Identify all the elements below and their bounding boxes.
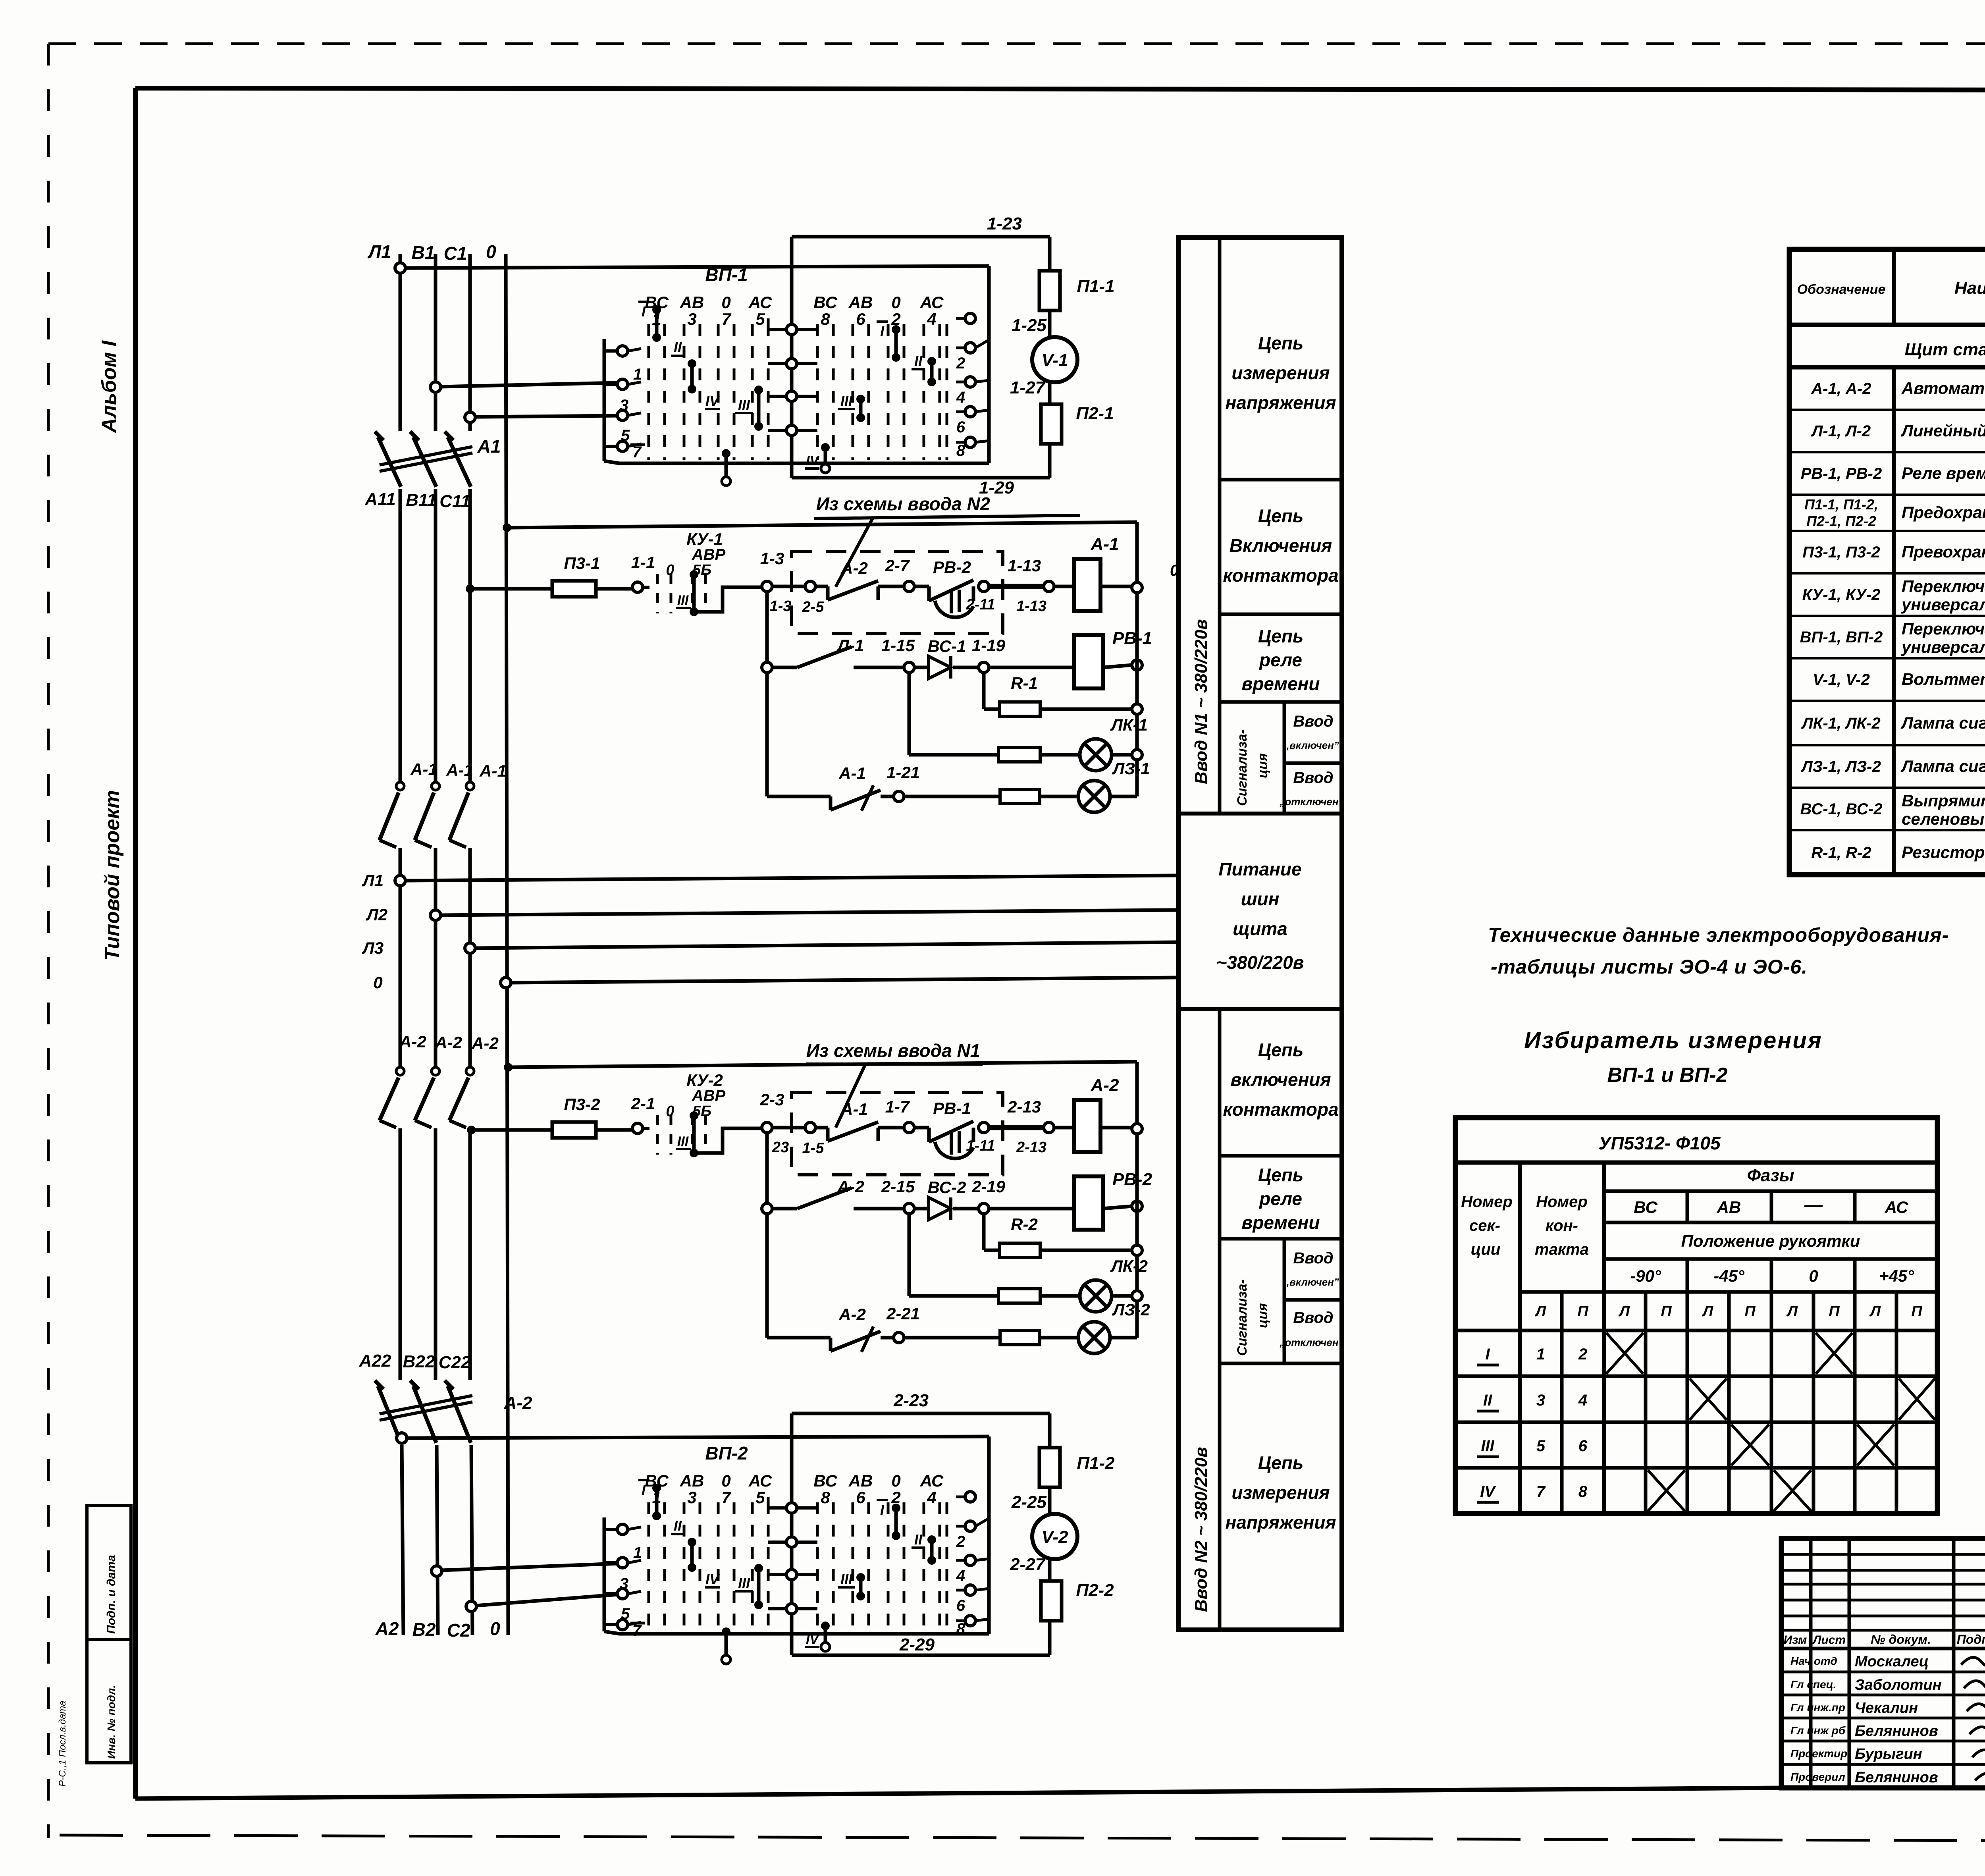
- svg-text:Технические данные электро: Технические данные электрооборудования-: [1488, 924, 1949, 946]
- svg-text:ция: ция: [1255, 1303, 1270, 1328]
- parts row R-1: [1811, 843, 1985, 862]
- svg-text:П2-1: П2-1: [1076, 404, 1114, 423]
- legend cell Ввод отключен (ввод 2): [1279, 1309, 1343, 1348]
- svg-text:АС: АС: [1885, 1198, 1908, 1217]
- svg-text:Цепь: Цепь: [1258, 333, 1304, 353]
- label 1-5 / 2-3 pair: [772, 1139, 824, 1157]
- svg-text:III: III: [840, 1571, 853, 1587]
- svg-text:4: 4: [927, 310, 936, 328]
- svg-text:1-23: 1-23: [987, 214, 1022, 233]
- ballast resistor for ЛЗ-2: [904, 1330, 1078, 1345]
- svg-text:П2-1, П2-2: П2-1, П2-2: [1806, 513, 1876, 529]
- svg-text:АВ: АВ: [848, 293, 873, 312]
- switch А-2 incomer 2 knife switch: [375, 1380, 472, 1443]
- svg-text:2-23: 2-23: [893, 1391, 929, 1410]
- bus В1/В2 phase B vertical line: [436, 254, 438, 1635]
- svg-text:Реле времени: Реле времени: [1902, 464, 1985, 482]
- switch ВП-2 inner box outline: [604, 1436, 989, 1634]
- svg-text:Типовой проект: Типовой проект: [101, 790, 124, 961]
- legend cell Сигнализация (ввод 2): [1235, 1279, 1270, 1356]
- svg-text:В22: В22: [403, 1352, 435, 1371]
- svg-text:III: III: [840, 393, 853, 409]
- resistor R-1: [984, 673, 1142, 716]
- fuse П3-2: [467, 1122, 632, 1138]
- selenium rectifier ВС-1: [914, 656, 979, 679]
- svg-text:Вольтметр: Вольтметр: [1902, 670, 1985, 688]
- svg-text:ВС: ВС: [1634, 1198, 1657, 1217]
- contact А-1 NC in box: [772, 1122, 904, 1141]
- svg-text:Цепь: Цепь: [1258, 626, 1304, 646]
- ВП-1 section IV contact (col ВС/8): [805, 443, 830, 473]
- ВП-1 contact column АВ/6 dashed pair: [848, 293, 873, 460]
- svg-text:4: 4: [956, 1567, 965, 1585]
- svg-text:1-15: 1-15: [881, 636, 915, 655]
- svg-text:0: 0: [666, 1103, 674, 1120]
- ВП-2 terminal 6: [956, 1585, 989, 1614]
- svg-text:С11: С11: [439, 492, 470, 511]
- interlock dashed box from ввод 1: [792, 1093, 1003, 1175]
- svg-text:5: 5: [755, 1488, 765, 1507]
- svg-text:0: 0: [486, 241, 496, 262]
- svg-text:ЛК-1: ЛК-1: [1110, 715, 1148, 734]
- svg-text:IV: IV: [705, 393, 720, 409]
- ВП-1 crosslink junction 2: [768, 359, 817, 369]
- svg-text:Включения: Включения: [1230, 535, 1332, 556]
- svg-text:6: 6: [956, 1597, 966, 1614]
- ВП-2 terminal 4: [956, 1555, 989, 1585]
- contact Л-2 / А-1 aux: [762, 1188, 904, 1214]
- svg-text:Л: Л: [1618, 1303, 1630, 1320]
- contactor А-2 main poles: [380, 1067, 474, 1128]
- svg-text:РВ-2: РВ-2: [933, 558, 971, 576]
- node 2-21: [886, 1304, 920, 1343]
- parts row V-1: [1813, 670, 1985, 689]
- svg-text:ВС-2: ВС-2: [928, 1178, 966, 1197]
- label 2-5 / 1-3 pair: [770, 598, 825, 615]
- svg-text:-таблицы листы ЭО-4 и ЭО-: -таблицы листы ЭО-4 и ЭО-6.: [1491, 956, 1808, 978]
- svg-text:измерения: измерения: [1231, 1482, 1330, 1503]
- svg-text:„отключен”: „отключен”: [1279, 796, 1343, 808]
- ВП-2 contact column АС/5 dashed pair: [748, 1471, 772, 1631]
- node 2-15: [881, 1177, 915, 1214]
- ВП-2 section III contact (col АС/5): [735, 1564, 763, 1609]
- svg-text:-45°: -45°: [1713, 1267, 1745, 1285]
- switch КУ-2 contact: [643, 1111, 762, 1157]
- svg-text:II: II: [1483, 1392, 1492, 1409]
- signal lamp ЛК-2 red: [1080, 1280, 1142, 1312]
- svg-text:III: III: [738, 397, 750, 413]
- bus 0 neutral vertical line: [506, 254, 508, 1635]
- node 2-13 wire: [979, 1097, 1054, 1156]
- svg-text:РВ-1, РВ-2: РВ-1, РВ-2: [1801, 465, 1882, 482]
- svg-text:шин: шин: [1241, 889, 1280, 909]
- selector table 1 row III: [1477, 1425, 1894, 1465]
- svg-text:III: III: [738, 1575, 750, 1591]
- ВП-2 terminal 5: [604, 1589, 641, 1623]
- svg-text:РВ-2: РВ-2: [1112, 1170, 1152, 1189]
- svg-text:ВП-1: ВП-1: [705, 264, 748, 285]
- svg-text:ЛЗ-2: ЛЗ-2: [1112, 1300, 1150, 1319]
- ВП-2 crosslink junction 3: [768, 1569, 817, 1580]
- svg-text:Сигнализа-: Сигнализа-: [1235, 1279, 1250, 1356]
- legend cell Питание шин щита: [1216, 859, 1304, 973]
- svg-text:„отключен”: „отключен”: [1279, 1336, 1343, 1348]
- svg-text:Номер: Номер: [1461, 1193, 1513, 1211]
- svg-text:Ввод: Ввод: [1293, 713, 1333, 730]
- time relay coil РВ-1: [989, 593, 1142, 796]
- svg-text:ЛК-2: ЛК-2: [1110, 1257, 1148, 1275]
- busbar Л1 horizontal: [395, 875, 1176, 886]
- svg-text:А-2: А-2: [1091, 1076, 1119, 1095]
- svg-text:R-1: R-1: [1011, 674, 1038, 692]
- svg-text:8: 8: [956, 1620, 966, 1638]
- svg-text:1-21: 1-21: [887, 763, 920, 782]
- svg-text:№ докум.: № докум.: [1871, 1632, 1931, 1647]
- wire 0 bus to 2-rail: [504, 1062, 1137, 1130]
- svg-text:IV: IV: [806, 1632, 820, 1647]
- ВП-1 contact column АС/4 dashed pair: [920, 293, 944, 460]
- svg-text:В1: В1: [412, 242, 435, 263]
- svg-text:Изм: Изм: [1784, 1633, 1807, 1647]
- svg-text:3: 3: [687, 310, 696, 328]
- ВП-1 terminal 5: [604, 410, 641, 444]
- ВП-1 section II contact (col АВ/3): [671, 339, 696, 393]
- note Технические данные электрооборудования: [1488, 924, 1949, 978]
- svg-text:V-1, V-2: V-1, V-2: [1813, 671, 1870, 688]
- svg-text:селеновый: селеновый: [1902, 810, 1985, 828]
- svg-text:контактора: контактора: [1223, 565, 1338, 586]
- switch КУ-1 contact: [643, 570, 762, 616]
- svg-text:I: I: [642, 1482, 646, 1498]
- svg-text:II: II: [914, 1531, 923, 1548]
- ВП-1 section II contact (col АС/4): [912, 353, 936, 386]
- svg-text:Ввод N2 ~ 380/220в: Ввод N2 ~ 380/220в: [1191, 1447, 1211, 1612]
- svg-text:ция: ция: [1255, 753, 1270, 778]
- svg-text:ВС: ВС: [813, 293, 837, 312]
- node 2-7: [885, 556, 914, 592]
- svg-text:6: 6: [856, 310, 865, 328]
- svg-text:„включен”: „включен”: [1284, 739, 1339, 751]
- svg-text:П3-1: П3-1: [564, 554, 600, 573]
- selector table 1 row IV: [1477, 1470, 1811, 1511]
- svg-text:сек-: сек-: [1469, 1217, 1500, 1234]
- legend cell Цепь включения контактора (ввод 1): [1223, 505, 1338, 586]
- fuse П2-2: [1041, 1581, 1062, 1621]
- svg-text:А-1: А-1: [410, 760, 437, 779]
- svg-text:Обозначение: Обозначение: [1797, 282, 1886, 297]
- svg-text:2-13: 2-13: [1016, 1139, 1046, 1156]
- svg-text:П1-1, П1-2,: П1-1, П1-2,: [1804, 496, 1878, 513]
- ВП-1 section III contact (col АС/5): [735, 386, 763, 431]
- node 2-1: [631, 1094, 655, 1134]
- svg-text:Л: Л: [1869, 1303, 1881, 1320]
- svg-text:Проверил: Проверил: [1790, 1771, 1845, 1783]
- contactor coil А-1: [1054, 559, 1142, 611]
- busbar 0 horizontal: [501, 978, 1176, 988]
- ВП-2 crosslink junction 1: [768, 1497, 817, 1513]
- svg-text:Л2: Л2: [366, 905, 387, 924]
- rail left ввод2: [765, 1133, 769, 1338]
- ВП-2 section II contact (col АВ/3): [671, 1517, 696, 1572]
- fuse П1-2: [1039, 1448, 1060, 1487]
- svg-text:АС: АС: [920, 1471, 944, 1490]
- ВП-2 terminal 8: [956, 1616, 989, 1638]
- svg-text:1: 1: [633, 1544, 642, 1562]
- contact А-1 aux NC: [767, 785, 894, 811]
- parts row КУ-1: [1802, 577, 1985, 614]
- ВП-1 crosslink junction 4: [768, 425, 817, 436]
- svg-text:контактора: контактора: [1223, 1099, 1338, 1120]
- ballast resistor for ЛЗ-1: [904, 789, 1078, 804]
- svg-text:2-19: 2-19: [971, 1177, 1006, 1196]
- svg-text:2-27: 2-27: [1010, 1555, 1046, 1574]
- ballast resistor for ЛК-2: [909, 1214, 1080, 1303]
- ВП-1 crosslink junction 3: [768, 391, 817, 401]
- legend cell Ввод включен (ввод 1): [1284, 713, 1339, 751]
- svg-text:Ввод: Ввод: [1293, 769, 1333, 787]
- svg-text:КУ-1: КУ-1: [686, 530, 723, 548]
- svg-text:0: 0: [721, 1471, 730, 1490]
- svg-text:Проектир: Проектир: [1790, 1747, 1847, 1760]
- svg-text:III: III: [677, 1134, 689, 1149]
- svg-text:Подп. и дата: Подп. и дата: [105, 1555, 118, 1634]
- ВП-2 section II contact (col АС/4): [912, 1531, 936, 1565]
- svg-text:2: 2: [1578, 1346, 1587, 1363]
- svg-text:4: 4: [927, 1488, 936, 1507]
- parts row Л-1: [1811, 411, 1985, 449]
- svg-text:А-1: А-1: [446, 761, 473, 779]
- svg-text:Цепь: Цепь: [1258, 1039, 1304, 1060]
- parts row ЛЗ-1: [1800, 751, 1985, 786]
- svg-text:Номер: Номер: [1536, 1193, 1588, 1211]
- svg-text:А-1: А-1: [479, 762, 507, 780]
- svg-text:4: 4: [956, 389, 965, 406]
- svg-text:ВС-1: ВС-1: [928, 637, 966, 656]
- voltmeter V-1: [1032, 337, 1077, 382]
- svg-text:Ввод: Ввод: [1293, 1309, 1333, 1327]
- svg-text:Л1: Л1: [362, 871, 384, 890]
- svg-text:0: 0: [1809, 1267, 1818, 1285]
- svg-text:П3-2: П3-2: [564, 1095, 600, 1114]
- svg-text:А2: А2: [375, 1618, 399, 1639]
- resistor R-2: [984, 1214, 1142, 1257]
- svg-text:АС: АС: [920, 293, 944, 312]
- title block signature table: [1781, 1539, 1985, 1788]
- svg-text:А-2: А-2: [837, 1177, 864, 1196]
- ВП-1 contact column ВС/1 dashed pair: [645, 293, 669, 460]
- svg-text:1-7: 1-7: [885, 1097, 910, 1116]
- title block header Изм Лист №докум Подпись Дата: [1784, 1632, 1985, 1647]
- svg-text:5: 5: [1536, 1437, 1546, 1455]
- svg-text:АВР: АВР: [692, 546, 726, 563]
- signature row Нач отд Москалец: [1790, 1653, 1985, 1670]
- svg-text:Нач отд: Нач отд: [1790, 1655, 1837, 1667]
- contactor coil А-2: [1054, 1100, 1142, 1152]
- svg-text:23: 23: [772, 1139, 789, 1156]
- ВП-1 contact column АС/5 dashed pair: [748, 293, 772, 460]
- svg-text:АВ: АВ: [680, 1471, 704, 1490]
- wire А2 to ВП-2 top: [397, 1433, 989, 1443]
- svg-text:А-1, А-2: А-1, А-2: [1811, 380, 1871, 397]
- svg-text:6: 6: [1578, 1437, 1588, 1455]
- ВП-1 top right terminal stub: [956, 313, 975, 324]
- svg-text:0: 0: [891, 293, 900, 312]
- svg-text:II: II: [674, 339, 682, 355]
- busbar Л3 horizontal: [465, 942, 1176, 953]
- svg-text:Гл инж рб: Гл инж рб: [1790, 1724, 1846, 1737]
- svg-text:А-2: А-2: [504, 1393, 532, 1413]
- svg-text:РВ-1: РВ-1: [1112, 629, 1152, 648]
- svg-text:5Б: 5Б: [692, 562, 711, 578]
- svg-text:АС: АС: [748, 293, 772, 312]
- node 1-15: [881, 636, 915, 673]
- svg-text:Ввод N1 ~ 380/220в: Ввод N1 ~ 380/220в: [1191, 619, 1211, 784]
- svg-text:2-5: 2-5: [802, 599, 825, 615]
- legend cell Ввод включен (ввод 2): [1284, 1249, 1339, 1288]
- svg-text:П: П: [1577, 1303, 1588, 1320]
- interlock dashed box from ввод 2: [792, 551, 1003, 634]
- switch ВП-1 inner box outline: [604, 266, 989, 463]
- svg-text:I: I: [1485, 1346, 1490, 1363]
- rail left ввод1: [765, 592, 769, 796]
- svg-text:2: 2: [956, 355, 965, 372]
- svg-text:А-1: А-1: [1091, 534, 1119, 554]
- svg-text:АС: АС: [748, 1471, 772, 1490]
- ВП-1 extra dashed line right: [946, 324, 948, 460]
- svg-text:2-21: 2-21: [886, 1304, 920, 1323]
- ВП-1 contact column 0/2 dashed pair: [888, 293, 904, 460]
- svg-text:А1: А1: [477, 436, 501, 457]
- svg-text:3: 3: [1536, 1392, 1545, 1409]
- ВП-2 section I contact (col ВС/1): [638, 1480, 661, 1520]
- parts row А-1: [1811, 373, 1985, 400]
- svg-text:А22: А22: [359, 1351, 391, 1371]
- ВП-2 contact column 0/7 dashed pair: [718, 1471, 734, 1631]
- node 2-19: [971, 1177, 1006, 1214]
- svg-text:—: —: [1804, 1194, 1823, 1215]
- selector table 1 Л П row: [1534, 1303, 1922, 1320]
- svg-text:ВС: ВС: [813, 1471, 837, 1490]
- wire С2 to ВП-2 terminal 3: [466, 1595, 617, 1612]
- parts row П3-1: [1802, 536, 1985, 571]
- legend cell Цепь реле времени (ввод 2): [1242, 1165, 1320, 1233]
- svg-text:1-11: 1-11: [966, 1138, 995, 1154]
- svg-text:ВП-1 и ВП-2: ВП-1 и ВП-2: [1607, 1064, 1727, 1087]
- ВП-1 terminal 1: [604, 346, 642, 383]
- ВП-2 section I contact (col 0/2): [877, 1500, 900, 1540]
- svg-text:R-2: R-2: [1011, 1215, 1038, 1234]
- svg-text:А-2: А-2: [471, 1034, 499, 1053]
- svg-text:Превохранитель: Превохранитель: [1902, 542, 1985, 561]
- ВП-2 terminal 1: [604, 1524, 642, 1562]
- svg-text:КУ-1, КУ-2: КУ-1, КУ-2: [1802, 586, 1881, 603]
- ВП-1 section I contact (col ВС/1): [638, 302, 661, 342]
- svg-text:Л: Л: [1534, 1303, 1546, 1320]
- signature row Проектир Бурыгин: [1790, 1746, 1985, 1762]
- svg-text:1-25: 1-25: [1012, 316, 1047, 335]
- ВП-1 section I contact (col 0/2): [877, 322, 900, 362]
- svg-text:~380/220в: ~380/220в: [1216, 952, 1304, 973]
- svg-text:С22: С22: [439, 1353, 471, 1372]
- ВП-1 contact column АВ/3 dashed pair: [680, 293, 704, 460]
- svg-text:Л-1: Л-1: [836, 636, 864, 655]
- svg-text:Л: Л: [1786, 1303, 1798, 1320]
- svg-text:напряжения: напряжения: [1225, 392, 1336, 413]
- svg-text:Белянинов: Белянинов: [1855, 1723, 1938, 1739]
- voltmeter V-2: [1032, 1514, 1077, 1559]
- svg-text:Л3: Л3: [362, 939, 384, 957]
- svg-text:КУ-2: КУ-2: [686, 1071, 723, 1089]
- parts list header row: [1797, 263, 1985, 305]
- svg-text:П: П: [1911, 1303, 1922, 1320]
- ВП-1 terminal 3: [604, 379, 641, 414]
- svg-text:ВП-2: ВП-2: [705, 1443, 748, 1463]
- svg-text:Белянинов: Белянинов: [1855, 1769, 1938, 1786]
- svg-text:1-13: 1-13: [1016, 598, 1046, 615]
- ВП-2 contact column АВ/6 dashed pair: [848, 1471, 873, 1631]
- svg-text:АВ: АВ: [848, 1471, 873, 1490]
- svg-text:7: 7: [632, 1622, 642, 1639]
- signal lamp ЛЗ-1 green: [1078, 781, 1137, 812]
- bus С1/С2 phase C vertical line: [470, 254, 472, 1635]
- svg-text:А-1: А-1: [838, 764, 866, 783]
- ВП-2 extra dashed line right: [946, 1502, 948, 1631]
- signature row Гл инж.пр Чекалин: [1790, 1700, 1985, 1716]
- ВП-2 terminal 3: [604, 1558, 641, 1593]
- svg-text:В2: В2: [412, 1619, 436, 1640]
- svg-text:8: 8: [821, 1488, 830, 1507]
- ВП-2 crosslink junction 4: [768, 1604, 817, 1614]
- ВП-1 contact column 0/7 dashed pair: [718, 293, 734, 460]
- wire Л1 to ВП-1 top: [395, 263, 989, 273]
- selector table 1 grid УП5312-Ф105: [1455, 1118, 1937, 1514]
- selector table 1 headers: [1461, 1166, 1914, 1285]
- svg-text:Лист: Лист: [1812, 1633, 1846, 1647]
- svg-text:1-13: 1-13: [1008, 556, 1041, 575]
- ВП-1 outer loop box 1-23/1-29: [792, 237, 1050, 478]
- svg-text:А-2: А-2: [840, 559, 868, 577]
- svg-text:АВ: АВ: [1717, 1198, 1741, 1217]
- signal lamp ЛК-1 red: [1080, 739, 1142, 771]
- svg-text:ВП-1, ВП-2: ВП-1, ВП-2: [1800, 629, 1883, 646]
- svg-text:АВ: АВ: [680, 293, 704, 312]
- svg-text:1-19: 1-19: [972, 636, 1006, 655]
- svg-text:+45°: +45°: [1879, 1267, 1914, 1285]
- svg-text:П: П: [1829, 1303, 1840, 1320]
- svg-text:7: 7: [721, 310, 731, 328]
- svg-text:II: II: [914, 353, 923, 369]
- svg-text:Гл спец.: Гл спец.: [1790, 1678, 1836, 1691]
- contact Л-1 / А-2 aux: [762, 647, 904, 673]
- svg-text:Лампа сигнальная: Лампа сигнальная: [1900, 713, 1985, 732]
- svg-text:2-3: 2-3: [760, 1090, 784, 1109]
- ВП-2 contact column АВ/3 dashed pair: [680, 1471, 704, 1631]
- svg-text:8: 8: [956, 442, 966, 459]
- node 1-7: [885, 1097, 914, 1133]
- svg-text:Выпрямитель: Выпрямитель: [1902, 791, 1985, 810]
- svg-text:ции: ции: [1471, 1241, 1501, 1258]
- svg-text:П2-2: П2-2: [1076, 1581, 1114, 1600]
- note Из схемы ввода N2: [814, 494, 1080, 587]
- svg-text:Чекалин: Чекалин: [1855, 1700, 1918, 1716]
- svg-text:1-1: 1-1: [631, 553, 655, 572]
- svg-text:такта: такта: [1535, 1241, 1589, 1258]
- svg-text:5: 5: [755, 310, 765, 328]
- svg-text:2-1: 2-1: [631, 1094, 655, 1113]
- svg-text:6: 6: [856, 1488, 865, 1507]
- parts row ВП-1: [1800, 619, 1985, 656]
- node 1-1: [631, 553, 655, 592]
